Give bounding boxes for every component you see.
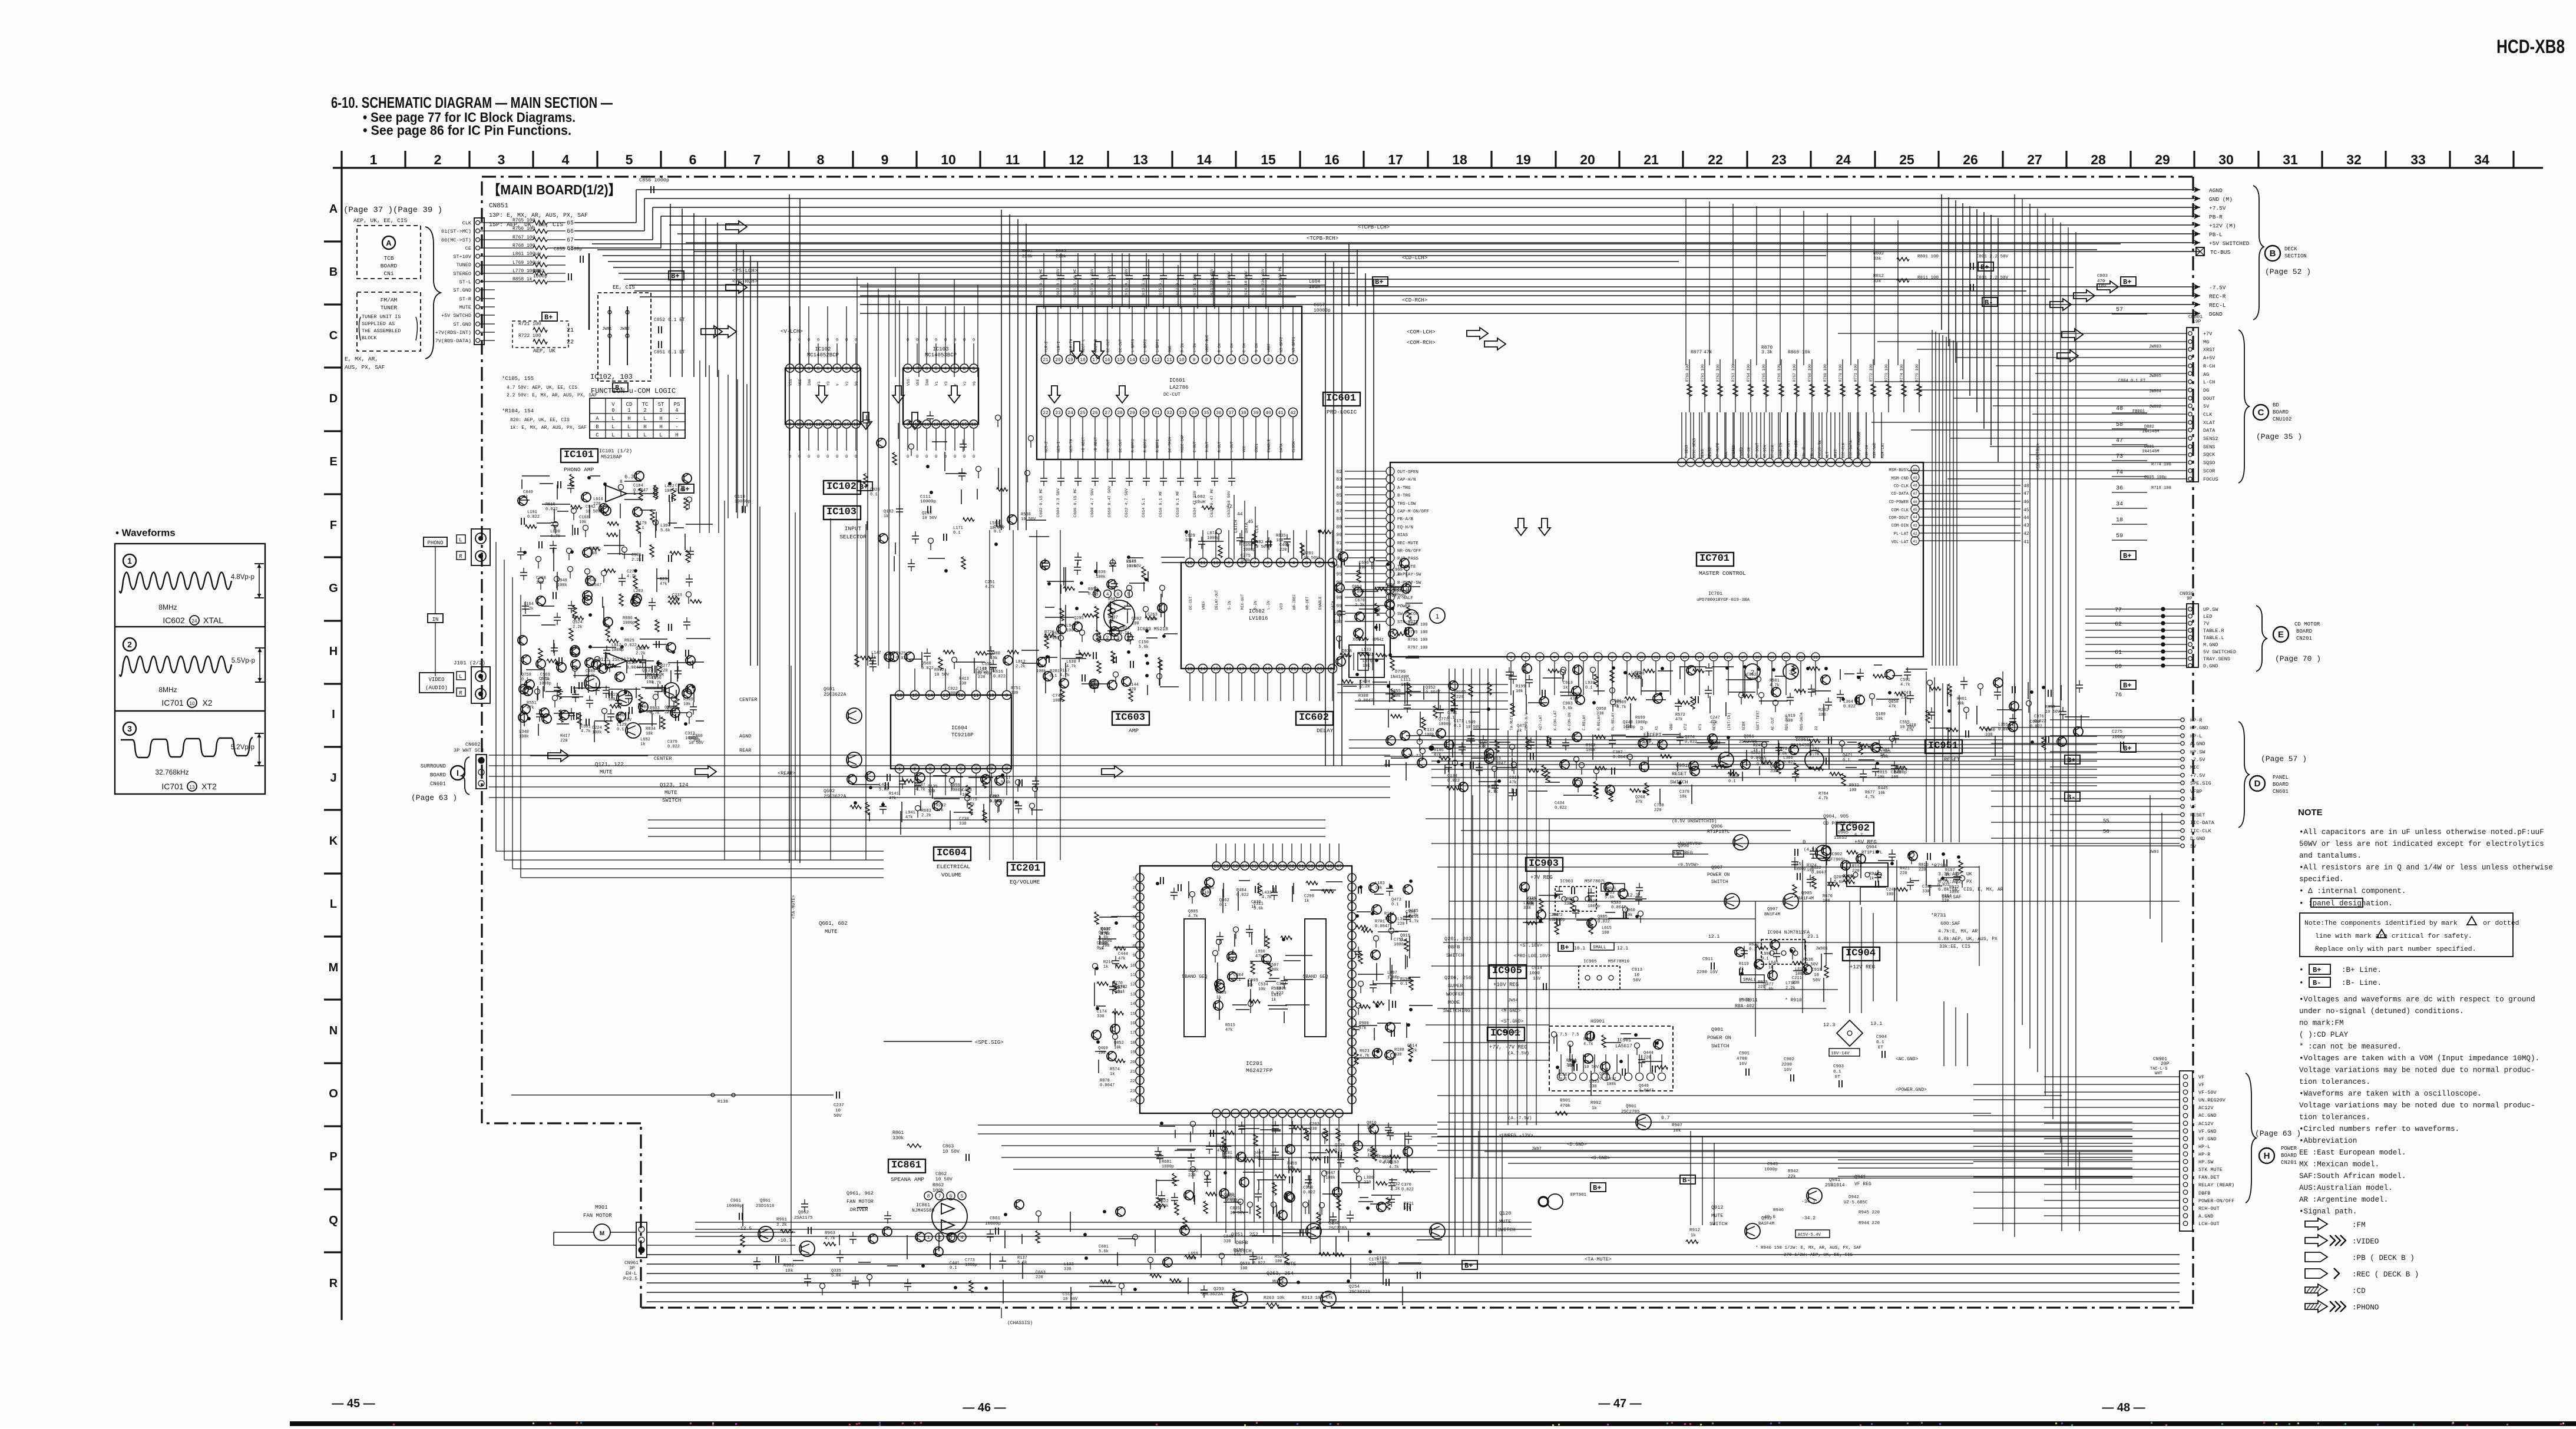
svg-text:4.7k: 4.7k: [1488, 790, 1498, 795]
svg-text:220: 220: [1654, 808, 1662, 813]
svg-text:16: 16: [897, 693, 902, 699]
svg-text:VF-50V: VF-50V: [2198, 1090, 2217, 1096]
IC904 label: [1843, 947, 1880, 970]
svg-text:C CH: C CH: [1242, 343, 1246, 352]
B+ label phono: [679, 484, 694, 494]
svg-text:IC904: IC904: [1846, 948, 1876, 959]
svg-text:Q182: Q182: [884, 510, 894, 514]
svg-text:•Waveforms are taken with a os: •Waveforms are taken with a oscilloscope…: [2299, 1090, 2482, 1098]
mid harness to IC701: [1337, 684, 2015, 765]
svg-text:HS901: HS901: [1590, 1019, 1605, 1024]
svg-text:R760 100: R760 100: [1685, 364, 1689, 382]
svg-text:R852: R852: [1088, 587, 1098, 592]
svg-text:H: H: [329, 645, 338, 658]
svg-text:0.0047: 0.0047: [587, 583, 601, 588]
svg-text:R137: R137: [1017, 1256, 1027, 1261]
svg-text:C634 47 25V: C634 47 25V: [1193, 490, 1198, 517]
svg-text:C616 0.1 MF: C616 0.1 MF: [1159, 491, 1163, 517]
svg-text:Y0: Y0: [973, 381, 977, 386]
IC602 label: [1296, 712, 1334, 734]
svg-text:SPE.SIG: SPE.SIG: [2190, 780, 2211, 786]
svg-text:52: 52: [1289, 864, 1295, 869]
svg-text:Q527: Q527: [590, 547, 600, 551]
svg-text:SWITCH: SWITCH: [662, 798, 681, 803]
svg-text:E: E: [329, 455, 337, 468]
svg-text:Voltage variations may be note: Voltage variations may be noted due to n…: [2299, 1101, 2535, 1110]
pp feed nums: [2103, 818, 2159, 855]
svg-text:4: 4: [1255, 358, 1258, 363]
panel board D: [2238, 722, 2307, 828]
svg-text:47k: 47k: [1325, 1296, 1333, 1301]
svg-text:50V: 50V: [834, 1114, 842, 1119]
svg-text:1k: 1k: [1216, 995, 1221, 1000]
svg-text:R811 100: R811 100: [1917, 276, 1939, 280]
svg-text:Q274: Q274: [1685, 735, 1695, 740]
svg-text:YLR-TH: YLR-TH: [1069, 339, 1073, 352]
svg-text:C: C: [329, 329, 338, 342]
op-amp IC101b: [606, 647, 654, 669]
svg-text:3: 3: [1267, 358, 1270, 363]
svg-text:53: 53: [1279, 864, 1285, 869]
svg-text:<A.GND>: <A.GND>: [1501, 1030, 1521, 1035]
svg-text:line with mark are critical: line with mark are critical for safety.: [2315, 933, 2472, 940]
svg-text:5: 5: [960, 767, 963, 772]
svg-text:BN1F4M: BN1F4M: [1764, 912, 1781, 917]
svg-text:0.1: 0.1: [1219, 903, 1227, 908]
svg-text:4: 4: [1106, 592, 1109, 597]
svg-text:— 48 —: — 48 —: [2102, 1401, 2145, 1414]
svg-text:MSM-BUSY: MSM-BUSY: [1889, 468, 1909, 473]
svg-text:REC-L: REC-L: [2209, 302, 2226, 309]
svg-text:CAP-M-ON/OFF: CAP-M-ON/OFF: [1397, 510, 1429, 514]
svg-text:MG: MG: [2203, 339, 2209, 345]
svg-text:H: H: [659, 424, 662, 430]
svg-text:NOTE: NOTE: [2298, 808, 2323, 818]
svg-text:23: 23: [1317, 667, 1322, 672]
center-right verticals: [1691, 901, 1967, 1225]
IC701 top pin labels: [1685, 412, 1885, 458]
svg-text:220: 220: [1919, 868, 1926, 872]
svg-text:C870: C870: [1355, 598, 1365, 603]
svg-text:330: 330: [1564, 902, 1572, 907]
svg-text:CD-CLK: CD-CLK: [1894, 484, 1909, 489]
svg-text:NR-IREF: NR-IREF: [1292, 594, 1297, 610]
svg-text:L659: L659: [1188, 1252, 1198, 1256]
svg-text:2.2k: 2.2k: [666, 710, 676, 715]
svg-text:4.7k: 4.7k: [1188, 914, 1198, 919]
deck section wires: [860, 187, 2250, 317]
svg-text:16: 16: [971, 422, 977, 428]
svg-text:C236: C236: [1843, 874, 1853, 879]
svg-text:PB-R: PB-R: [2209, 214, 2223, 220]
svg-text:10: 10: [1213, 561, 1219, 566]
svg-text:L355: L355: [1998, 723, 2008, 727]
svg-text:12: 12: [1154, 358, 1160, 363]
svg-text:0: 0: [1803, 839, 1805, 845]
svg-text:BN1A4M: BN1A4M: [647, 673, 664, 678]
svg-text:7: 7: [1597, 656, 1599, 660]
svg-text:Q904, 905: Q904, 905: [1823, 814, 1848, 819]
svg-text:IC951: IC951: [1795, 738, 1809, 743]
svg-text:A: A: [596, 416, 599, 422]
svg-text:-7.5V: -7.5V: [2190, 757, 2205, 763]
svg-text:• Waveforms: • Waveforms: [115, 527, 176, 538]
IC701 uPD78001 chip: [1334, 412, 1923, 695]
svg-text:AEP, UK: AEP, UK: [533, 348, 555, 354]
svg-text:R335: R335: [1526, 897, 1536, 901]
svg-text:17: 17: [1239, 667, 1245, 672]
svg-text:K-CON-ON: K-CON-ON: [1568, 713, 1572, 730]
B+ power row: [1462, 1175, 1695, 1270]
svg-text:Q626: Q626: [1770, 765, 1780, 769]
svg-text:TBL-L: TBL-L: [1810, 447, 1814, 458]
svg-text:33: 33: [1179, 411, 1185, 416]
svg-text:Q649: Q649: [1639, 1084, 1649, 1089]
svg-text:M901: M901: [595, 1205, 608, 1210]
svg-text:1000p: 1000p: [1553, 918, 1565, 922]
svg-text:L167: L167: [1757, 757, 1767, 762]
svg-text:C663: C663: [1036, 1271, 1046, 1275]
svg-text:D905: D905: [1838, 831, 1849, 835]
svg-text:L949: L949: [1466, 720, 1476, 725]
svg-text:4.7k: 4.7k: [1865, 795, 1875, 800]
svg-text:100k: 100k: [557, 583, 567, 588]
svg-text:<COM-RCH>: <COM-RCH>: [1407, 340, 1436, 346]
svg-text:R114: R114: [1852, 864, 1862, 869]
svg-text:C482: C482: [1254, 540, 1264, 545]
svg-text:0.7: 0.7: [1661, 1116, 1670, 1121]
svg-text:Q253: Q253: [1213, 1287, 1225, 1292]
svg-text:FB801: FB801: [2132, 409, 2145, 414]
svg-text:8MHz: 8MHz: [158, 686, 177, 694]
svg-text:Q771: Q771: [1439, 717, 1449, 722]
svg-text:C376: C376: [2034, 714, 2044, 719]
svg-text:ST-MUTE: ST-MUTE: [1716, 442, 1720, 458]
svg-text:R308: R308: [1358, 694, 1368, 699]
svg-text:100: 100: [1132, 621, 1139, 626]
IC604 label: [934, 847, 971, 878]
svg-text:M5218AP: M5218AP: [601, 454, 622, 460]
svg-text:4.7k: 4.7k: [1360, 1054, 1370, 1058]
svg-text:C617 0.1: C617 0.1: [1176, 278, 1180, 297]
svg-text:ELECTRICAL: ELECTRICAL: [937, 864, 970, 870]
svg-text:CLK: CLK: [1255, 525, 1260, 533]
svg-text:+5V SWTCHD: +5V SWTCHD: [441, 313, 471, 319]
svg-text:330: 330: [1011, 691, 1019, 696]
svg-text:BLOCK: BLOCK: [362, 335, 377, 341]
svg-text:2.2k: 2.2k: [776, 1223, 788, 1228]
svg-text:(A.-7.5V): (A.-7.5V): [1508, 1116, 1532, 1121]
svg-text:M: M: [600, 1230, 604, 1237]
svg-text:Q472: Q472: [1517, 724, 1527, 729]
svg-text:427-LAT: 427-LAT: [1539, 714, 1543, 730]
page number 45: [332, 1397, 375, 1410]
svg-text:C863: C863: [943, 1144, 954, 1149]
phono input label: [424, 537, 447, 547]
svg-text:C174: C174: [1097, 1010, 1107, 1014]
svg-text:XLT: XLT: [1826, 451, 1830, 458]
svg-text:19: 19: [1770, 656, 1774, 660]
power board H: [2246, 1073, 2301, 1203]
svg-text:0.1: 0.1: [1120, 631, 1127, 636]
svg-text:R201: R201: [1304, 551, 1314, 556]
svg-text:8: 8: [1096, 592, 1099, 597]
svg-text:I: I: [457, 768, 459, 778]
svg-text:34: 34: [2116, 501, 2123, 508]
svg-text:0: 0: [798, 455, 801, 459]
svg-text:15: 15: [1130, 1012, 1135, 1017]
svg-text:100: 100: [1602, 931, 1609, 935]
svg-text:47k: 47k: [905, 815, 913, 820]
IC201 left caps: [1092, 912, 1143, 1088]
svg-text:IC701: IC701: [1708, 591, 1722, 597]
svg-text:SENS2: SENS2: [2203, 436, 2218, 442]
svg-text:C168: C168: [579, 515, 589, 520]
svg-text:DC-CUT: DC-CUT: [1119, 439, 1123, 452]
svg-text:1k: 1k: [884, 514, 888, 519]
svg-text:12: 12: [933, 422, 939, 428]
svg-text:0: 0: [808, 455, 810, 459]
svg-text:100: 100: [1276, 538, 1284, 543]
svg-text:L-BPF2: L-BPF2: [1143, 339, 1148, 352]
svg-text:ST-R: ST-R: [459, 296, 471, 302]
svg-text:2.2k: 2.2k: [573, 625, 583, 630]
svg-text:8: 8: [620, 479, 623, 485]
svg-text:BA1F4M: BA1F4M: [1758, 1222, 1775, 1226]
svg-text:<REAR>: <REAR>: [778, 770, 796, 776]
svg-text:0.0047: 0.0047: [1375, 924, 1390, 929]
svg-text:Q633: Q633: [1240, 1262, 1250, 1266]
svg-text:TABLE.R: TABLE.R: [2203, 628, 2224, 634]
svg-text:330: 330: [1223, 1239, 1231, 1244]
svg-text:C608 4.7 50V: C608 4.7 50V: [1090, 488, 1095, 517]
svg-text:100: 100: [1886, 892, 1894, 897]
svg-text:54: 54: [1270, 864, 1276, 869]
svg-text:IC701: IC701: [161, 782, 184, 791]
IC951 cluster: [1708, 731, 1907, 801]
svg-text:0.022: 0.022: [1361, 653, 1374, 657]
svg-text:0.022: 0.022: [1236, 893, 1249, 898]
svg-text:BOARD: BOARD: [2273, 409, 2289, 415]
svg-text:1000p: 1000p: [1207, 536, 1219, 541]
svg-text:MUTE: MUTE: [1499, 1219, 1511, 1225]
svg-text:21: 21: [567, 328, 574, 334]
svg-text:C845: C845: [1223, 1235, 1234, 1239]
svg-text:Y1: Y1: [817, 381, 821, 386]
svg-text:12.3: 12.3: [1823, 1022, 1835, 1028]
svg-text:C601 0.15 MF: C601 0.15 MF: [1039, 269, 1044, 297]
svg-text:R601: R601: [1022, 249, 1033, 254]
svg-text:INPUT-CHANGE: INPUT-CHANGE: [1857, 431, 1861, 458]
svg-text:Q958: Q958: [1596, 707, 1606, 712]
svg-text:XT2: XT2: [201, 782, 217, 791]
svg-text:+5V REG: +5V REG: [1854, 839, 1877, 845]
svg-text:SAF:South African model.: SAF:South African model.: [2299, 1172, 2406, 1180]
svg-text:<TCPB-RCH>: <TCPB-RCH>: [1307, 236, 1338, 242]
svg-text:8MHz: 8MHz: [158, 603, 177, 611]
svg-text:MUTE: MUTE: [1711, 1213, 1723, 1219]
svg-text:CE: CE: [465, 246, 471, 252]
svg-text:L: L: [627, 424, 630, 430]
svg-text:R199: R199: [1516, 684, 1526, 689]
svg-text:4.7k:E, MX, AR: 4.7k:E, MX, AR: [1938, 929, 1978, 934]
svg-text:REC-R: REC-R: [2209, 293, 2226, 300]
svg-text:3.3k: 3.3k: [1761, 350, 1773, 355]
svg-text:R775 100: R775 100: [1915, 364, 1919, 382]
svg-text:0: 0: [855, 338, 857, 343]
svg-text:47k: 47k: [889, 796, 897, 801]
svg-text:VF.GND: VF.GND: [2198, 1129, 2217, 1134]
svg-text:B+: B+: [1593, 1184, 1601, 1192]
svg-text:C605 0.15 MF: C605 0.15 MF: [1073, 269, 1078, 297]
svg-text:B+: B+: [1560, 944, 1569, 952]
svg-text:R764 100: R764 100: [1747, 364, 1751, 382]
svg-text:Q906: Q906: [1711, 824, 1722, 829]
B+ deck: [1978, 262, 1998, 307]
svg-text:L: L: [330, 898, 337, 911]
svg-text:1: 1: [927, 1235, 930, 1241]
svg-text:Q473: Q473: [1391, 898, 1401, 902]
svg-text:C911: C911: [1702, 957, 1714, 962]
svg-text:2200 16V: 2200 16V: [1697, 970, 1718, 975]
svg-text:470: 470: [2097, 279, 2105, 284]
svg-text:R587: R587: [1108, 597, 1118, 602]
svg-text:P=2.5: P=2.5: [623, 1276, 637, 1282]
svg-text:C859: C859: [950, 783, 960, 788]
svg-text:BIAS: BIAS: [1397, 533, 1408, 538]
svg-text:10 50V: 10 50V: [2045, 710, 2061, 714]
svg-text:INPUT: INPUT: [845, 525, 862, 532]
svg-text:100: 100: [1807, 868, 1814, 873]
svg-text:88: 88: [1336, 517, 1342, 522]
L604 choke: [1309, 279, 1331, 313]
svg-text:10k: 10k: [1258, 987, 1266, 992]
svg-text:XTAL: XTAL: [203, 616, 223, 625]
svg-text:R710: R710: [978, 670, 988, 675]
svg-text:AC.GND: AC.GND: [2198, 1113, 2217, 1119]
svg-text:R699: R699: [1635, 716, 1645, 720]
svg-text:<TCPB-LCH>: <TCPB-LCH>: [1358, 224, 1390, 230]
svg-text:R216: R216: [1103, 960, 1113, 965]
svg-text:4.7k: 4.7k: [1818, 796, 1828, 801]
svg-text:48: 48: [1913, 484, 1917, 488]
svg-text:330k: 330k: [892, 1136, 904, 1141]
svg-text:4.7k: 4.7k: [1408, 914, 1418, 918]
svg-text:VF: VF: [2198, 1074, 2204, 1080]
svg-text:C926: C926: [870, 488, 880, 492]
svg-text:C110: C110: [735, 495, 746, 500]
svg-text:SCOR: SCOR: [2203, 468, 2215, 474]
svg-text:IC904 NJM7812FA: IC904 NJM7812FA: [1767, 930, 1810, 935]
svg-text:R802: R802: [1873, 252, 1884, 256]
svg-text:<COM-LCH>: <COM-LCH>: [1407, 329, 1436, 335]
svg-text:16: 16: [1130, 1021, 1135, 1026]
svg-text:R231: R231: [660, 577, 670, 582]
svg-text:C184: C184: [633, 484, 643, 488]
svg-text:C434: C434: [1360, 680, 1370, 684]
svg-text:22: 22: [567, 339, 574, 346]
svg-text:100: 100: [672, 598, 680, 603]
svg-text:10 50V: 10 50V: [922, 516, 937, 521]
svg-text:R252: R252: [1751, 751, 1761, 756]
svg-text:C495: C495: [1279, 543, 1289, 548]
svg-text:C379: C379: [667, 740, 677, 745]
svg-text:R600: R600: [1367, 1149, 1377, 1153]
svg-text:R681: R681: [1162, 1160, 1172, 1165]
svg-text:RECT L: RECT L: [1082, 339, 1086, 352]
svg-text:3: 3: [127, 724, 132, 733]
svg-text:2.2 50V: E, MX, AR, AUS, PX, S: 2.2 50V: E, MX, AR, AUS, PX, SAF: [507, 393, 597, 398]
svg-text:( ):CD PLAY: ( ):CD PLAY: [2299, 1031, 2349, 1039]
svg-text:B+: B+: [859, 483, 868, 491]
IC601 top arrows: [1071, 342, 1104, 359]
svg-text:UN.REG20V: UN.REG20V: [2198, 1097, 2226, 1103]
svg-text:C904: C904: [1876, 1035, 1887, 1040]
svg-text:DATA: DATA: [2203, 428, 2215, 434]
svg-text:C359: C359: [1216, 991, 1226, 995]
IC701 bottom pin labels: [1510, 710, 1818, 730]
svg-text:C811 2.2 50V: C811 2.2 50V: [1976, 276, 2009, 280]
svg-text:3: 3: [1539, 656, 1541, 660]
svg-text:1000: 1000: [1529, 971, 1540, 976]
svg-text:28: 28: [2091, 152, 2106, 167]
svg-text:YLR-I: YLR-I: [1057, 341, 1061, 352]
svg-text:47k: 47k: [660, 582, 667, 587]
svg-text:JW81: JW81: [602, 327, 612, 332]
svg-text:<PRO-LOG.10V>: <PRO-LOG.10V>: [1514, 954, 1551, 959]
svg-text:LED: LED: [2203, 614, 2212, 620]
svg-text:IC604: IC604: [951, 725, 967, 731]
svg-text:58: 58: [2116, 422, 2123, 428]
svg-text:MX :Mexican model.: MX :Mexican model.: [2299, 1160, 2379, 1169]
svg-text:L147: L147: [871, 651, 881, 656]
svg-text:UP.SW: UP.SW: [2203, 607, 2218, 613]
svg-text:R-BPF2: R-BPF2: [1143, 439, 1148, 452]
signal label CD-RCH: [1402, 297, 1427, 303]
svg-text:• See page 86 for IC Pin Funct: • See page 86 for IC Pin Functions.: [363, 123, 571, 138]
svg-text:L CH: L CH: [1230, 343, 1234, 352]
svg-text:2: 2: [1318, 561, 1321, 566]
svg-text:IN: IN: [432, 617, 439, 623]
svg-text:•Signal path.: •Signal path.: [2299, 1208, 2357, 1216]
svg-text:100: 100: [1785, 719, 1793, 723]
svg-text:3: 3: [1305, 561, 1308, 566]
capacitor C856: [639, 177, 669, 193]
svg-text:2.2k: 2.2k: [524, 607, 534, 611]
svg-text:BOARD: BOARD: [430, 772, 446, 778]
svg-text:X2: X2: [202, 698, 212, 707]
svg-text:1k: 1k: [871, 656, 876, 660]
svg-text:C301: C301: [1922, 885, 1932, 889]
svg-text:C178: C178: [1369, 1258, 1379, 1262]
svg-text:XRST: XRST: [1834, 449, 1838, 458]
svg-text:C539: C539: [1325, 1291, 1335, 1296]
bottom bus lines: [647, 1222, 2180, 1302]
svg-text:4: 4: [675, 408, 678, 414]
svg-text:41: 41: [2023, 540, 2029, 545]
svg-text:NR-DET: NR-DET: [1305, 596, 1310, 610]
svg-text:0: 0: [973, 455, 975, 459]
svg-text:59: 59: [1223, 864, 1229, 869]
svg-text:<M.GND>: <M.GND>: [1501, 1008, 1521, 1014]
svg-text:0.022: 0.022: [527, 515, 540, 520]
svg-text:CD: CD: [626, 402, 633, 408]
page number 46: [963, 1401, 1006, 1414]
svg-text:L133: L133: [1064, 1262, 1074, 1267]
svg-text:R766 100: R766 100: [1777, 364, 1781, 382]
svg-text:L948: L948: [1066, 624, 1076, 629]
svg-text:27: 27: [2027, 152, 2042, 167]
